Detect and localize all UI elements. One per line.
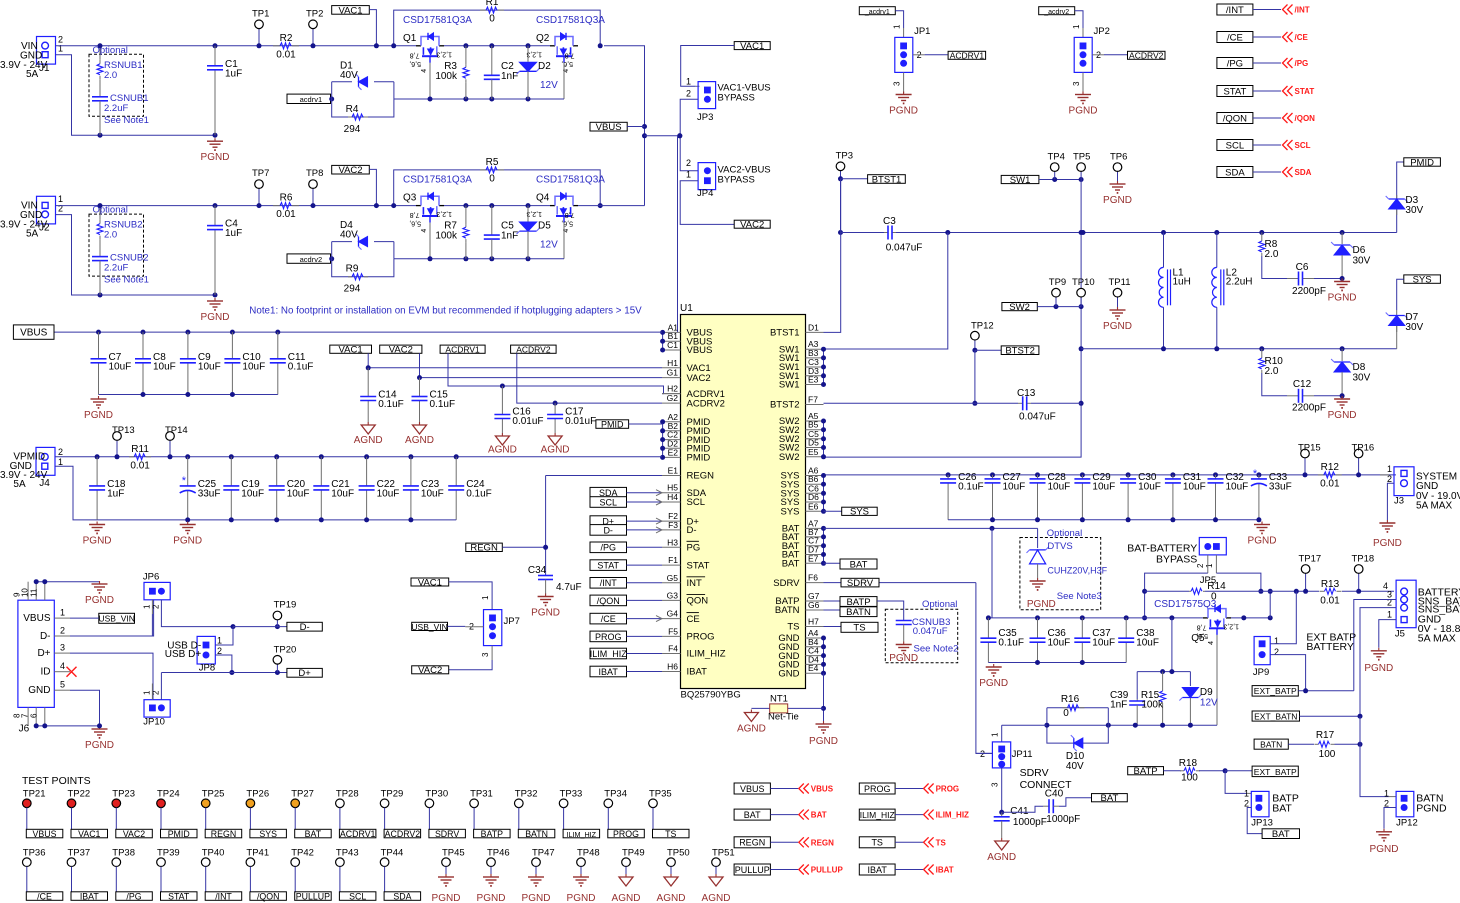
svg-text:TS: TS	[665, 829, 676, 839]
svg-text:2: 2	[217, 646, 222, 656]
svg-text:BAT: BAT	[1272, 802, 1292, 814]
svg-text:SDRV: SDRV	[773, 578, 800, 589]
svg-text:ACDRV2: ACDRV2	[687, 398, 725, 409]
svg-text:PMID: PMID	[1410, 157, 1434, 168]
svg-text:5,6,: 5,6,	[561, 60, 573, 67]
svg-text:JP13: JP13	[1251, 818, 1273, 829]
svg-text:VBUS: VBUS	[687, 345, 713, 356]
svg-text:4.7uF: 4.7uF	[556, 582, 582, 593]
svg-text:F4: F4	[668, 644, 678, 654]
svg-text:IBAT: IBAT	[936, 866, 954, 875]
svg-text:10uF: 10uF	[1183, 481, 1206, 492]
svg-text:PROG: PROG	[613, 829, 639, 839]
svg-text:PMID: PMID	[168, 829, 190, 839]
svg-text:TP37: TP37	[68, 847, 91, 858]
svg-text:GND: GND	[28, 685, 50, 696]
svg-text:JP6: JP6	[143, 572, 159, 583]
svg-text:3: 3	[1072, 81, 1081, 86]
svg-text:SCL: SCL	[1295, 141, 1311, 150]
svg-text:TP15: TP15	[1298, 443, 1321, 454]
svg-text:C1: C1	[667, 340, 678, 350]
svg-text:2.2uF: 2.2uF	[104, 103, 128, 114]
svg-text:E5: E5	[808, 447, 819, 457]
svg-text:PGND: PGND	[173, 536, 202, 547]
svg-text:0.01uF: 0.01uF	[512, 416, 543, 427]
svg-text:/INT: /INT	[600, 578, 618, 588]
svg-text:TP44: TP44	[381, 847, 404, 858]
svg-text:2.2uF: 2.2uF	[104, 263, 128, 274]
svg-text:PGND: PGND	[889, 106, 918, 117]
svg-text:2: 2	[1196, 563, 1205, 568]
svg-text:10uF: 10uF	[1226, 481, 1249, 492]
svg-text:IBAT: IBAT	[687, 667, 708, 678]
svg-text:ILIM_HIZ: ILIM_HIZ	[687, 649, 726, 660]
svg-text:SW1: SW1	[1010, 175, 1031, 186]
svg-text:1uF: 1uF	[225, 228, 242, 239]
svg-text:D1: D1	[808, 322, 819, 332]
svg-text:G5: G5	[667, 573, 679, 583]
svg-text:PGND: PGND	[809, 736, 838, 747]
svg-text:SW1: SW1	[779, 380, 800, 391]
svg-text:BATP: BATP	[1134, 766, 1158, 777]
svg-text:VBUS: VBUS	[20, 328, 48, 339]
svg-text:PGND: PGND	[1069, 106, 1098, 117]
svg-text:2: 2	[58, 203, 63, 213]
svg-text:D2: D2	[538, 61, 551, 72]
svg-text:C3: C3	[883, 216, 896, 227]
svg-text:TP25: TP25	[202, 788, 225, 799]
svg-text:0.1uF: 0.1uF	[430, 399, 456, 410]
svg-text:BYPASS: BYPASS	[1156, 554, 1197, 566]
svg-text:CE: CE	[687, 614, 700, 625]
svg-text:1nF: 1nF	[501, 71, 518, 82]
svg-text:PMID: PMID	[687, 453, 711, 464]
svg-text:/QON: /QON	[257, 891, 279, 901]
svg-text:PGND: PGND	[567, 893, 596, 903]
svg-text:R16: R16	[1061, 694, 1080, 705]
svg-text:SDA: SDA	[393, 891, 411, 901]
svg-text:BAT: BAT	[811, 811, 827, 820]
svg-text:AGND: AGND	[405, 435, 434, 446]
svg-text:40V: 40V	[340, 230, 358, 241]
svg-text:TP19: TP19	[274, 600, 297, 611]
svg-text:R12: R12	[1321, 462, 1340, 473]
svg-text:10uF: 10uF	[421, 488, 444, 499]
svg-text:D8: D8	[1353, 362, 1366, 373]
svg-text:JP7: JP7	[504, 616, 520, 627]
svg-text:30V: 30V	[1353, 373, 1371, 384]
svg-text:See Note1: See Note1	[104, 115, 149, 126]
svg-text:C6: C6	[1296, 262, 1309, 273]
svg-text:H2: H2	[667, 384, 678, 394]
svg-text:30V: 30V	[1353, 256, 1371, 267]
svg-text:1000pF: 1000pF	[1013, 817, 1047, 828]
svg-text:TP51: TP51	[712, 847, 735, 858]
svg-text:D9: D9	[1200, 687, 1213, 698]
svg-text:40V: 40V	[340, 70, 358, 81]
svg-text:PGND: PGND	[1027, 599, 1056, 610]
svg-text:TP12: TP12	[971, 321, 994, 332]
svg-text:TP5: TP5	[1073, 152, 1090, 163]
svg-text:1: 1	[1244, 789, 1249, 799]
svg-text:294: 294	[344, 124, 361, 135]
svg-text:C41: C41	[1010, 806, 1029, 817]
svg-text:SDA: SDA	[1225, 167, 1245, 178]
svg-text:PROG: PROG	[687, 632, 715, 643]
svg-text:JP8: JP8	[199, 663, 215, 674]
svg-text:CSD17581Q3A: CSD17581Q3A	[536, 15, 605, 26]
svg-text:/CE: /CE	[1295, 33, 1309, 42]
svg-text:/INT: /INT	[1295, 6, 1310, 15]
svg-text:EXT_BATN: EXT_BATN	[1254, 711, 1297, 721]
svg-text:PROG: PROG	[864, 784, 891, 794]
svg-text:0.1uF: 0.1uF	[958, 481, 984, 492]
svg-text:TP40: TP40	[202, 847, 225, 858]
svg-text:VAC2: VAC2	[123, 829, 145, 839]
svg-text:1: 1	[1274, 636, 1279, 646]
svg-text:5,6,: 5,6,	[409, 60, 421, 67]
svg-text:3: 3	[991, 782, 1000, 787]
svg-text:BTST1: BTST1	[872, 174, 902, 185]
svg-text:0: 0	[489, 173, 495, 184]
svg-text:/CE: /CE	[37, 891, 52, 901]
svg-text:TP6: TP6	[1110, 152, 1127, 163]
svg-text:VAC2: VAC2	[687, 373, 711, 384]
svg-text:TP13: TP13	[112, 425, 135, 436]
svg-text:0.01uF: 0.01uF	[565, 416, 596, 427]
svg-text:Q5: Q5	[1191, 633, 1205, 644]
svg-text:See Note2: See Note2	[914, 644, 959, 655]
svg-text:6: 6	[29, 713, 38, 718]
svg-text:/QON: /QON	[1295, 114, 1316, 123]
svg-text:0.1uF: 0.1uF	[998, 638, 1024, 649]
svg-text:ACDRV1: ACDRV1	[445, 345, 480, 355]
svg-text:VAC1: VAC1	[338, 5, 362, 16]
svg-text:SYS: SYS	[850, 507, 869, 518]
svg-text:/PG: /PG	[600, 543, 616, 553]
svg-text:1: 1	[58, 457, 63, 467]
svg-text:BAT: BAT	[850, 559, 868, 570]
svg-text:1: 1	[60, 608, 65, 618]
svg-text:7,8: 7,8	[565, 211, 575, 218]
svg-text:BATN: BATN	[525, 829, 548, 839]
svg-text:0.1uF: 0.1uF	[288, 361, 314, 372]
svg-text:E6: E6	[808, 501, 819, 511]
svg-text:1: 1	[1384, 789, 1389, 799]
svg-text:AGND: AGND	[987, 852, 1016, 863]
svg-text:ACDRV2: ACDRV2	[516, 345, 551, 355]
svg-text:Q1: Q1	[403, 33, 417, 44]
svg-text:_acdrv1: _acdrv1	[864, 9, 890, 16]
svg-text:PGND: PGND	[85, 595, 114, 606]
svg-text:SYS: SYS	[780, 507, 799, 518]
svg-text:1: 1	[991, 732, 1000, 737]
svg-text:TP10: TP10	[1072, 277, 1095, 288]
svg-text:JP4: JP4	[697, 188, 713, 199]
svg-text:1,2,3: 1,2,3	[436, 210, 452, 217]
svg-text:BATN: BATN	[1260, 740, 1282, 750]
svg-text:2: 2	[686, 158, 691, 168]
svg-text:REGN: REGN	[687, 471, 715, 482]
svg-text:J5: J5	[1395, 628, 1405, 639]
svg-text:1: 1	[58, 44, 63, 54]
svg-text:BATN: BATN	[846, 607, 871, 618]
svg-text:VBUS: VBUS	[23, 613, 51, 624]
svg-text:3: 3	[893, 81, 902, 86]
svg-text:TP7: TP7	[252, 168, 269, 179]
svg-text:TP30: TP30	[425, 788, 448, 799]
svg-text:0.047uF: 0.047uF	[913, 626, 948, 637]
svg-text:100: 100	[1319, 749, 1336, 760]
svg-text:H4: H4	[667, 492, 678, 502]
svg-text:R5: R5	[486, 157, 499, 168]
svg-text:F7: F7	[808, 395, 818, 405]
svg-text:R11: R11	[131, 444, 149, 455]
svg-text:SDA: SDA	[1295, 168, 1312, 177]
svg-text:G2: G2	[667, 393, 679, 403]
svg-text:ID: ID	[41, 667, 51, 678]
svg-text:VAC1: VAC1	[339, 345, 363, 356]
svg-text:VBUS: VBUS	[811, 785, 834, 794]
svg-text:2: 2	[980, 749, 985, 759]
svg-text:5: 5	[60, 680, 65, 690]
svg-text:PGND: PGND	[1364, 663, 1393, 674]
svg-text:TP3: TP3	[836, 151, 853, 162]
svg-text:SCL: SCL	[599, 497, 617, 507]
svg-text:DTVS: DTVS	[1047, 541, 1072, 552]
svg-text:/INT: /INT	[1226, 5, 1244, 16]
svg-text:USB_VIN: USB_VIN	[411, 622, 447, 632]
svg-text:/CE: /CE	[1227, 32, 1243, 43]
svg-text:*: *	[182, 475, 187, 487]
svg-text:TP29: TP29	[381, 788, 404, 799]
svg-text:*: *	[1253, 468, 1258, 480]
svg-text:SCL: SCL	[1226, 140, 1244, 151]
svg-text:E7: E7	[808, 553, 819, 563]
svg-text:TP18: TP18	[1352, 554, 1375, 565]
svg-text:PGND: PGND	[531, 608, 560, 619]
svg-text:0: 0	[1063, 708, 1069, 719]
svg-text:D-: D-	[300, 622, 310, 633]
svg-text:VAC1: VAC1	[78, 829, 100, 839]
svg-text:PG: PG	[687, 543, 701, 554]
svg-text:PGND: PGND	[1103, 195, 1132, 206]
svg-text:C12: C12	[1293, 379, 1312, 390]
svg-text:ILIM_HIZ: ILIM_HIZ	[590, 649, 628, 659]
svg-text:F5: F5	[668, 626, 678, 636]
svg-text:PGND: PGND	[1248, 536, 1277, 547]
svg-text:VAC2: VAC2	[338, 165, 362, 176]
svg-text:0.01: 0.01	[276, 209, 296, 220]
svg-text:4: 4	[60, 661, 65, 671]
svg-text:BTST1: BTST1	[770, 328, 800, 339]
svg-text:_acdrv2: _acdrv2	[294, 255, 322, 264]
svg-text:J3: J3	[1394, 496, 1404, 507]
svg-text:CUHZ20V,H3F: CUHZ20V,H3F	[1047, 565, 1107, 575]
svg-text:/INT: /INT	[215, 891, 232, 901]
svg-text:BAT: BAT	[782, 559, 800, 570]
svg-text:R13: R13	[1321, 579, 1340, 590]
svg-text:See Note1: See Note1	[104, 275, 149, 286]
svg-text:TP14: TP14	[165, 425, 188, 436]
svg-text:1: 1	[893, 24, 902, 29]
svg-text:R2: R2	[280, 33, 293, 44]
svg-text:D-: D-	[603, 525, 613, 535]
svg-text:2: 2	[1274, 647, 1279, 657]
svg-text:NT1: NT1	[770, 694, 788, 705]
svg-text:1000pF: 1000pF	[1046, 814, 1080, 825]
svg-text:Optional: Optional	[1047, 528, 1082, 539]
svg-text:294: 294	[344, 284, 361, 295]
svg-text:10uF: 10uF	[331, 488, 354, 499]
svg-text:TP47: TP47	[532, 847, 555, 858]
svg-text:TP43: TP43	[336, 847, 359, 858]
svg-text:H6: H6	[667, 662, 678, 672]
svg-text:0.01: 0.01	[1320, 478, 1340, 489]
svg-text:CSD17581Q3A: CSD17581Q3A	[403, 15, 472, 26]
svg-text:/CE: /CE	[601, 614, 616, 624]
svg-text:TP41: TP41	[246, 847, 269, 858]
svg-text:_acdrv1: _acdrv1	[294, 95, 322, 104]
svg-text:1,2,3: 1,2,3	[526, 50, 542, 57]
svg-text:TS: TS	[871, 838, 883, 848]
svg-text:PGND: PGND	[1103, 321, 1132, 332]
svg-text:AGND: AGND	[702, 893, 731, 903]
svg-text:SYS: SYS	[259, 829, 277, 839]
svg-text:IBAT: IBAT	[868, 865, 888, 875]
svg-text:2: 2	[60, 626, 65, 636]
svg-text:10uF: 10uF	[153, 361, 176, 372]
svg-text:/QON: /QON	[1223, 113, 1247, 124]
svg-text:PULLUP: PULLUP	[811, 866, 844, 875]
svg-text:STAT: STAT	[1223, 86, 1246, 97]
svg-text:TP42: TP42	[291, 847, 314, 858]
svg-text:JP12: JP12	[1396, 818, 1418, 829]
svg-text:5,6,: 5,6,	[561, 220, 573, 227]
svg-text:100k: 100k	[1141, 700, 1164, 711]
svg-text:E3: E3	[808, 375, 819, 385]
svg-text:SW2: SW2	[779, 452, 800, 463]
svg-text:QON: QON	[687, 596, 709, 607]
svg-text:VBUS: VBUS	[740, 784, 765, 794]
svg-text:TP17: TP17	[1299, 554, 1322, 565]
svg-text:STAT: STAT	[687, 560, 710, 571]
svg-text:PGND: PGND	[1373, 538, 1402, 549]
svg-text:5A: 5A	[13, 479, 26, 490]
svg-text:BAT: BAT	[1101, 793, 1119, 804]
svg-text:VBUS: VBUS	[596, 122, 622, 133]
svg-text:/PG: /PG	[126, 891, 141, 901]
svg-text:STAT: STAT	[168, 891, 190, 901]
svg-text:TP8: TP8	[306, 168, 323, 179]
svg-text:F1: F1	[668, 555, 678, 565]
svg-text:TP11: TP11	[1109, 277, 1131, 288]
svg-text:33uF: 33uF	[1269, 481, 1292, 492]
svg-text:SDRV: SDRV	[435, 829, 459, 839]
svg-text:2200pF: 2200pF	[1292, 286, 1326, 297]
svg-text:REGN: REGN	[811, 838, 834, 847]
svg-text:VAC2: VAC2	[389, 345, 413, 356]
svg-text:_acdrv2: _acdrv2	[1043, 9, 1069, 16]
svg-text:12V: 12V	[540, 240, 558, 251]
svg-text:3: 3	[481, 652, 490, 657]
svg-text:JP3: JP3	[697, 112, 713, 123]
svg-text:1,2,3: 1,2,3	[1223, 622, 1239, 629]
svg-text:0.047uF: 0.047uF	[1019, 412, 1056, 423]
svg-text:PGND: PGND	[83, 536, 112, 547]
svg-text:BYPASS: BYPASS	[718, 93, 755, 104]
svg-text:2: 2	[58, 447, 63, 457]
svg-text:EXT_BATP: EXT_BATP	[1254, 767, 1297, 777]
svg-text:STAT: STAT	[1295, 87, 1315, 96]
svg-text:2.2uH: 2.2uH	[1226, 276, 1253, 287]
svg-text:SCL: SCL	[687, 497, 705, 508]
svg-text:JP10: JP10	[143, 717, 165, 728]
svg-text:EXT_BATP: EXT_BATP	[1254, 686, 1297, 696]
svg-text:0.1uF: 0.1uF	[466, 488, 492, 499]
svg-text:BATP: BATP	[481, 829, 503, 839]
svg-text:PGND: PGND	[1416, 802, 1447, 814]
svg-text:10uF: 10uF	[287, 488, 310, 499]
svg-text:ACDRV1: ACDRV1	[950, 51, 985, 61]
svg-text:1,2,3: 1,2,3	[526, 210, 542, 217]
svg-text:1: 1	[1387, 464, 1392, 474]
svg-text:D+: D+	[298, 668, 311, 679]
svg-text:CSD17581Q3A: CSD17581Q3A	[403, 175, 472, 186]
svg-text:3: 3	[60, 643, 65, 653]
svg-text:10uF: 10uF	[1092, 638, 1115, 649]
svg-text:TP20: TP20	[274, 645, 297, 656]
svg-text:10uF: 10uF	[109, 361, 132, 372]
svg-text:See Note3: See Note3	[1057, 591, 1102, 602]
svg-text:SCL: SCL	[349, 891, 366, 901]
svg-text:TP49: TP49	[622, 847, 645, 858]
svg-text:H3: H3	[667, 537, 678, 547]
svg-text:100k: 100k	[435, 71, 458, 82]
svg-text:ILIM_HIZ: ILIM_HIZ	[860, 810, 895, 820]
svg-text:TP39: TP39	[157, 847, 180, 858]
svg-text:10uF: 10uF	[1003, 481, 1026, 492]
svg-text:PGND: PGND	[1328, 293, 1357, 304]
svg-text:5A: 5A	[26, 229, 39, 240]
svg-text:Q3: Q3	[403, 193, 417, 204]
svg-text:TP33: TP33	[560, 788, 583, 799]
svg-text:E4: E4	[808, 663, 819, 673]
svg-text:1uF: 1uF	[225, 68, 242, 79]
svg-text:TP38: TP38	[112, 847, 135, 858]
svg-text:PROG: PROG	[595, 632, 622, 642]
svg-text:0.1uF: 0.1uF	[378, 399, 404, 410]
svg-text:10uF: 10uF	[1048, 638, 1071, 649]
svg-text:TP26: TP26	[246, 788, 269, 799]
svg-text:G4: G4	[667, 609, 679, 619]
svg-text:PULLUP: PULLUP	[735, 865, 770, 875]
svg-text:H7: H7	[808, 617, 819, 627]
svg-text:1: 1	[1072, 24, 1081, 29]
svg-text:G3: G3	[667, 590, 679, 600]
svg-text:100k: 100k	[435, 231, 458, 242]
svg-text:VBUS: VBUS	[33, 829, 57, 839]
svg-text:JP9: JP9	[1253, 667, 1269, 678]
svg-text:J2: J2	[39, 223, 50, 234]
svg-text:PROG: PROG	[936, 785, 960, 794]
svg-text:TP50: TP50	[667, 847, 690, 858]
svg-text:GND: GND	[778, 668, 799, 679]
svg-text:11: 11	[29, 588, 38, 597]
svg-text:BTST2: BTST2	[770, 400, 800, 411]
svg-text:12V: 12V	[1200, 698, 1218, 709]
svg-text:1: 1	[217, 636, 222, 646]
